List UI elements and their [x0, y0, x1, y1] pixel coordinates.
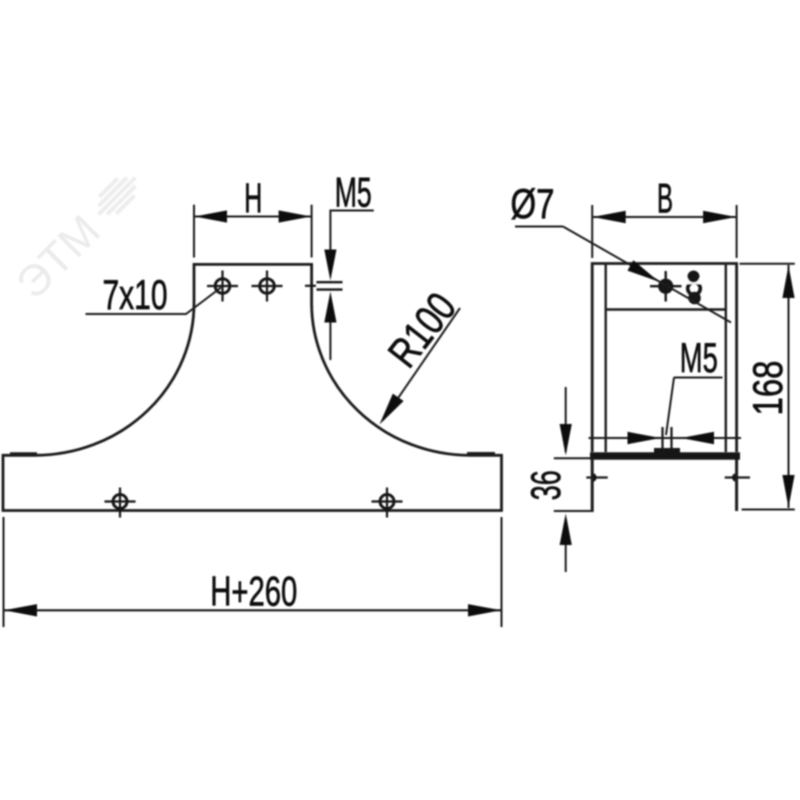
- svg-text:H: H: [244, 175, 262, 222]
- svg-text:H+260: H+260: [210, 567, 297, 614]
- M5 screw end at plate right edge: [305, 282, 343, 289]
- top plate hole left (7x10 slot): [207, 271, 238, 302]
- channel inner wall left: [605, 265, 607, 453]
- dimension B arrow left: [593, 211, 626, 223]
- R100 leader: [383, 308, 460, 420]
- internal width dimension line: [589, 437, 742, 439]
- leg tick left dot: [594, 473, 597, 481]
- base hole right: [372, 488, 403, 518]
- dimension H line: [194, 216, 312, 218]
- O7 leader underline: [515, 226, 563, 228]
- internal dim arrow right: [681, 432, 714, 444]
- M5 leader underline and drop: [330, 211, 373, 251]
- dimension B line: [592, 216, 736, 218]
- dimension 36 lower tail: [565, 545, 567, 572]
- M5 side leader underline: [674, 377, 723, 379]
- dimension 168 extension bottom: [742, 509, 795, 511]
- bracket front outline: [3, 264, 502, 510]
- svg-text:B: B: [657, 175, 673, 222]
- dimension 168 top arrow: [782, 266, 794, 299]
- dimension B extension line left: [591, 205, 593, 258]
- O7 arrow: [627, 260, 659, 282]
- watermark logo stripes: [90, 169, 144, 223]
- R100 arrow: [380, 394, 404, 425]
- internal dim arrow left: [628, 432, 661, 444]
- svg-text:M5: M5: [680, 334, 718, 381]
- keyhole slot upper dot: [688, 271, 700, 283]
- svg-text:36: 36: [522, 470, 569, 500]
- keyhole slot lower lobe: [688, 292, 701, 305]
- channel web line: [606, 308, 726, 310]
- top plate hole right: [252, 271, 283, 302]
- channel inner wall right: [725, 265, 727, 453]
- base top edge overlap left: [10, 452, 37, 456]
- dimension H+260 extension line left: [3, 517, 5, 627]
- dimension H arrow right: [279, 210, 312, 222]
- dimension 168 extension top: [740, 263, 795, 265]
- leg right: [735, 460, 738, 512]
- hole O7: [650, 271, 682, 302]
- base hole left: [105, 488, 136, 518]
- dimension 36 extension top: [554, 457, 594, 459]
- channel outer profile: [592, 264, 736, 453]
- leg tick left: [586, 476, 607, 478]
- dimension 36 lower arrow: [560, 514, 572, 546]
- keyhole slot arc: [688, 282, 701, 295]
- leg tick right: [725, 476, 750, 478]
- dimension H extension line left: [193, 205, 195, 258]
- M5 lower arrow tail: [329, 323, 331, 361]
- dimension 36 line upper: [565, 387, 567, 452]
- base top edge overlap right: [467, 452, 495, 456]
- M5 upper arrow: [324, 250, 336, 281]
- dimension H extension line right: [311, 205, 313, 258]
- 7x10 leader: [86, 288, 222, 315]
- svg-text:Ø7: Ø7: [511, 180, 555, 227]
- M5 stud head on flange: [654, 448, 680, 453]
- M5 lower arrow: [324, 292, 336, 323]
- dimension 168 line: [788, 265, 790, 508]
- O7 leader: [563, 227, 731, 323]
- M5 side leader: [666, 378, 674, 436]
- leg tick right dot: [732, 473, 735, 481]
- M5 stud lines: [661, 427, 663, 452]
- svg-text:M5: M5: [335, 169, 372, 216]
- dimension 168 bottom arrow: [782, 475, 794, 508]
- dimension B arrow right: [703, 211, 736, 223]
- dimension B extension line right: [736, 205, 738, 258]
- dimension H+260 arrow left: [4, 604, 37, 616]
- svg-text:168: 168: [744, 361, 791, 416]
- dimension H arrow left: [195, 210, 228, 222]
- dimension 36 upper arrow: [560, 424, 572, 456]
- dimension H+260 extension line right: [501, 517, 503, 627]
- dimension H+260 arrow right: [468, 604, 501, 616]
- svg-text:7x10: 7x10: [103, 271, 168, 318]
- leg left: [591, 460, 594, 513]
- dimension H+260 line: [4, 609, 502, 611]
- dimension 36 extension bottom: [554, 510, 594, 512]
- bottom flange: [590, 452, 740, 459]
